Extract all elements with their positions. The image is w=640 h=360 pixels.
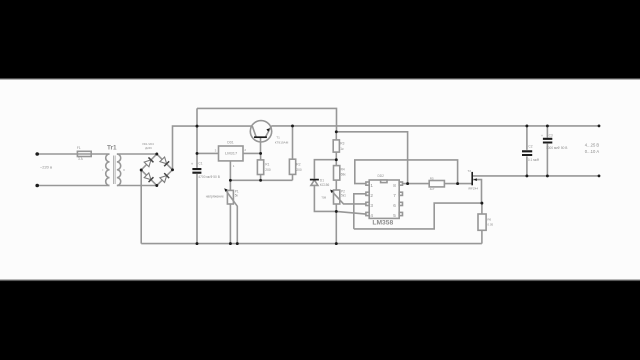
svg-text:II: II: [123, 168, 125, 172]
junction bridge left: [140, 169, 143, 172]
zener D1 cathode bar: [310, 179, 319, 181]
capacitor C1 plates: [192, 169, 201, 173]
wire R2 bottom: [292, 174, 294, 180]
upper rail wire: [197, 108, 337, 131]
junction P2 bus: [335, 242, 338, 245]
transformer Tr1 core: [114, 156, 116, 185]
junction C1 bus: [196, 242, 199, 245]
wire secondary bottom to bridge: [117, 185, 157, 187]
wire pin4: [336, 211, 366, 214]
svg-text:T2: T2: [468, 169, 472, 173]
svg-text:R5: R5: [430, 176, 434, 180]
svg-text:0.1 мкФ: 0.1 мкФ: [528, 158, 540, 162]
wire bridge left node down to bottom bus: [140, 170, 142, 244]
svg-text:Д246: Д246: [145, 146, 152, 150]
terminal dot AC top: [35, 152, 39, 156]
svg-text:C2: C2: [528, 145, 532, 149]
junction C3 top: [546, 124, 549, 127]
junction P1 wiper bus: [236, 242, 239, 245]
svg-text:напряжение: напряжение: [206, 194, 224, 198]
T2 source arrow: [474, 178, 477, 181]
mosfet T2 drain wire: [472, 175, 599, 177]
capacitor C3 plates: [543, 139, 552, 143]
svg-text:R2: R2: [296, 163, 300, 167]
rail A output plus wire: [271, 125, 599, 127]
svg-text:1: 1: [370, 183, 373, 188]
mosfet T2 source wire: [472, 180, 481, 204]
potentiometer P2 wiper diagonal: [331, 191, 366, 204]
svg-text:0...10 А: 0...10 А: [585, 149, 600, 154]
svg-text:+: +: [191, 162, 194, 167]
resistor R2: [289, 159, 295, 174]
svg-text:3: 3: [370, 203, 373, 208]
svg-text:ток: ток: [321, 195, 326, 199]
resistor R5: [429, 181, 444, 187]
mosfet T2 gate bar: [471, 172, 473, 185]
svg-text:200: 200: [296, 168, 302, 172]
svg-text:R4: R4: [341, 167, 345, 171]
terminal out minus: [598, 175, 601, 178]
wire pin8 to R5: [403, 183, 430, 185]
terminal out plus: [598, 125, 601, 128]
junction emitter rail R2: [291, 124, 294, 127]
transistor T1 base bar: [254, 136, 267, 138]
white schematic background band: [0, 80, 640, 279]
wire R4 to P2: [335, 180, 337, 190]
wire P1 top: [229, 180, 231, 190]
wire R6 top: [481, 203, 483, 214]
capacitor C2 plates: [522, 151, 532, 155]
wire AC top-left: [37, 153, 109, 155]
svg-text:7: 7: [393, 193, 396, 198]
bridge diodes VD1-VD4: [144, 157, 169, 183]
svg-text:1000 мкФ 50 В: 1000 мкФ 50 В: [546, 146, 567, 150]
svg-text:D1: D1: [320, 178, 324, 182]
wire AC bottom-left: [37, 185, 109, 187]
bridge diamond wires: [141, 154, 172, 186]
wire R3 to R4: [335, 152, 337, 166]
transistor T1 emitter diagonal: [265, 126, 271, 137]
svg-text:F1: F1: [77, 146, 81, 150]
regulator U1 LM317 box: [219, 146, 244, 161]
svg-text:4700 мкФ 50 В: 4700 мкФ 50 В: [198, 175, 219, 179]
P2 wiper arrowhead: [330, 190, 333, 194]
wire vertical at x197 (C1 / LM317 input riser): [196, 108, 198, 243]
wire R3 chain riser: [335, 132, 337, 140]
capacitor C3 wires: [546, 126, 548, 176]
svg-text:C3: C3: [549, 133, 553, 137]
wire P2 bottom to bus: [335, 204, 337, 244]
svg-text:4: 4: [370, 213, 373, 218]
IC U2 LM358 body: [369, 180, 399, 218]
transistor T1 circle: [250, 121, 271, 142]
potentiometer P1 wiper diagonal: [225, 190, 237, 244]
IC pin stubs right: [399, 182, 402, 185]
svg-text:R3: R3: [340, 142, 344, 146]
transistor T1 emitter arrow: [266, 128, 270, 132]
bottom bus wire: [141, 243, 482, 245]
transistor T1 base lead: [260, 137, 262, 153]
junction adj P1: [229, 179, 232, 182]
junction C2 top: [525, 124, 528, 127]
wire R1 bottom: [260, 175, 262, 181]
potentiometer P1 body: [227, 190, 233, 204]
wire P1 bottom: [229, 204, 231, 244]
resistor R3: [333, 140, 339, 152]
junction pin8 R5: [406, 182, 409, 185]
resistor R4: [334, 166, 340, 181]
wire zener branch bottom: [314, 185, 336, 211]
junction T2 source R6: [480, 202, 483, 205]
wire ADJ node line: [230, 179, 292, 181]
wire LM317 input: [197, 152, 219, 154]
wire LM317 output: [243, 152, 261, 154]
junction P1 bus: [229, 242, 232, 245]
svg-text:2: 2: [370, 193, 373, 198]
svg-text:LM317: LM317: [225, 151, 238, 156]
junction C3 bottom: [546, 174, 549, 177]
svg-text:DD1: DD1: [227, 140, 234, 144]
junction bridge bottom: [155, 184, 158, 187]
svg-text:DD2: DD2: [378, 174, 385, 178]
svg-text:T1: T1: [276, 136, 280, 140]
svg-text:5к1: 5к1: [341, 194, 346, 198]
wire bridge right node up and right (raw DC): [173, 126, 253, 170]
svg-text:4к7: 4к7: [430, 187, 435, 191]
resistor R1: [257, 160, 263, 175]
svg-text:IRFZ44: IRFZ44: [468, 187, 478, 191]
IC pin stubs left: [366, 182, 369, 185]
wire R5 to gate: [444, 183, 471, 185]
svg-text:8: 8: [393, 183, 396, 188]
junction LM317 in: [196, 152, 199, 155]
wire secondary top to bridge: [117, 153, 157, 155]
wire pin1 to gate line: [355, 160, 458, 184]
wire R6 bottom: [481, 230, 483, 243]
potentiometer P2 body: [334, 190, 340, 204]
svg-text:LM358: LM358: [372, 219, 393, 226]
svg-text:КС156: КС156: [320, 183, 330, 187]
junction rail B R3: [335, 130, 338, 133]
capacitor C2 wires: [526, 126, 528, 176]
svg-text:5: 5: [393, 213, 396, 218]
junction C2 bottom: [525, 174, 528, 177]
svg-text:~220 в: ~220 в: [40, 165, 52, 170]
wire zener branch top: [314, 160, 336, 179]
junction raw x197: [196, 125, 199, 128]
wire R2 top from rail A: [292, 126, 294, 159]
wire pin2: [354, 194, 366, 229]
P1 wiper arrowhead: [224, 188, 227, 192]
svg-text:C1: C1: [198, 161, 202, 165]
wire R1 top: [260, 153, 262, 160]
svg-text:200: 200: [265, 168, 271, 172]
wire LM317 adj: [229, 161, 231, 180]
junction R1 bottom: [259, 179, 262, 182]
junction R5 gate: [456, 182, 459, 185]
svg-text:Tr1: Tr1: [107, 144, 117, 151]
svg-text:R1: R1: [265, 163, 269, 167]
junction bridge right: [171, 168, 174, 171]
transformer Tr1 secondary winding: [117, 154, 121, 186]
svg-text:0.05: 0.05: [487, 223, 493, 227]
svg-text:6: 6: [393, 203, 396, 208]
svg-text:+: +: [541, 134, 543, 138]
shunt resistor R6: [478, 214, 486, 230]
junction LM317 out / base / R1: [259, 152, 262, 155]
wire current sense link: [354, 203, 482, 229]
transformer Tr1 primary winding: [106, 154, 110, 186]
fuse F1: [77, 151, 91, 156]
transistor T1 collector diagonal: [252, 126, 256, 137]
junction R3 R4 D1: [335, 158, 338, 161]
zener diode D1 triangle: [311, 180, 318, 185]
rail B wire: [336, 132, 407, 184]
svg-text:КТ819АМ: КТ819АМ: [275, 140, 289, 144]
terminal dot AC bottom: [35, 184, 39, 188]
svg-text:R6: R6: [487, 218, 491, 222]
svg-text:4...25 В: 4...25 В: [585, 142, 600, 147]
junction bridge top: [155, 153, 158, 156]
IC notch: [381, 180, 387, 183]
svg-text:68к: 68к: [341, 173, 347, 177]
junction D1 P2 pin4: [335, 210, 338, 213]
